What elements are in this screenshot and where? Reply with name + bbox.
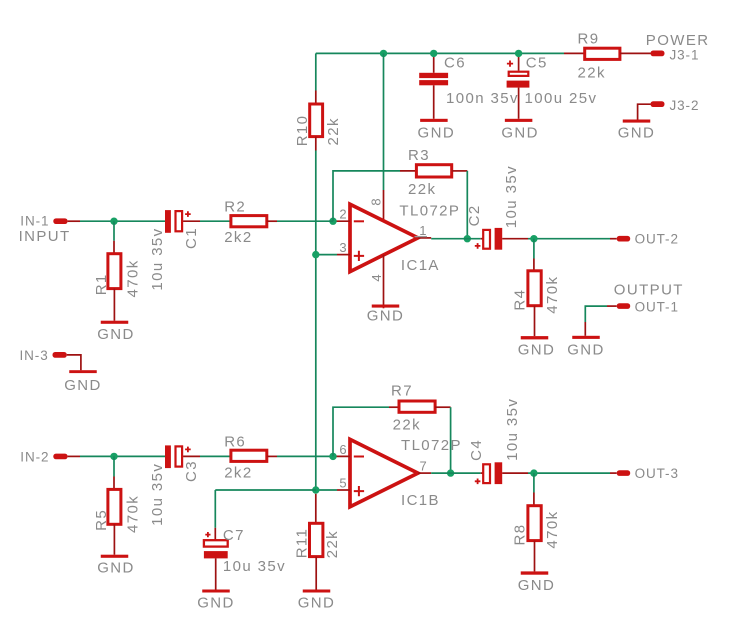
wire OUT-1 ground pin [584,322,586,336]
resistor R3 [416,165,451,177]
svg-text:GND: GND [618,124,656,141]
minus mark IC1A [354,220,364,222]
junction output / R4 [530,235,537,242]
capacitor C2 [483,230,490,249]
svg-text:R6: R6 [224,434,246,451]
svg-text:GND: GND [518,342,556,359]
svg-text:C2: C2 [466,204,483,226]
svg-text:OUTPUT: OUTPUT [614,282,684,299]
junction bias / pin5 / R11 / C7 [312,486,319,493]
junction IN-2 / R5 [110,453,117,460]
svg-text:C7: C7 [223,527,245,544]
wire output to R8 [533,473,535,492]
svg-text:R7: R7 [391,382,413,399]
wire R6 to pin 6 [277,455,333,457]
wire pin IN-2 [68,455,80,457]
svg-text:IC1A: IC1A [401,257,440,274]
wire output to R4 [533,239,535,259]
plus mark C5 [507,61,513,67]
svg-text:IN-3: IN-3 [20,348,49,363]
ground under R8 [521,571,549,574]
pin IN-2 [53,454,67,460]
svg-text:OUT-1: OUT-1 [635,300,679,315]
wire pin R3 right [452,170,468,172]
ground under OUT-1 [572,336,600,339]
wire vertical bias net [315,151,317,491]
svg-text:1: 1 [419,223,427,238]
plus mark IC1A [354,251,364,261]
svg-text:GND: GND [367,307,405,324]
wire pin R1 bottom [113,289,115,321]
wire pin C7 bottom [215,558,217,589]
svg-text:R11: R11 [294,528,311,559]
junction feedback / output [464,235,471,242]
svg-text:IN-2: IN-2 [20,450,49,465]
plus mark IC1B [354,486,364,496]
resistor R11 [310,523,323,556]
wire pin 5 IC1B [337,489,350,491]
wire pin C5 bottom [518,88,520,119]
svg-text:R9: R9 [578,30,600,47]
svg-text:IC1B: IC1B [401,492,440,509]
svg-text:22k: 22k [325,117,342,145]
plus mark C3 [185,447,191,453]
capacitor C3 [165,445,171,468]
pin IN-1 [53,218,67,224]
svg-text:C4: C4 [468,439,485,461]
plus mark C1 [185,211,191,217]
svg-text:4: 4 [369,274,384,282]
ground under C5 [505,119,532,122]
wire pin OUT-1 left [607,305,617,307]
wire feedback IC1A left [333,171,400,221]
wire pin R5 top [113,477,115,490]
wire pin C2 left [481,238,484,240]
wire pin IN-1 [68,220,80,222]
svg-text:R2: R2 [224,199,246,216]
ground under R1 [101,321,129,324]
wire pin C5 top [518,53,520,70]
resistor R9 [585,48,620,59]
wire pin C6 bottom [433,85,435,119]
pin OUT-2 [617,236,631,242]
wire IC1A output [431,238,481,240]
wire bias to pin 5 [316,489,337,491]
resistor R2 [231,216,267,227]
plus mark C2 [475,243,481,249]
wire feedback IC1B right [450,407,452,473]
svg-text:470k: 470k [124,495,141,533]
wire pin 2 IC1A [333,220,350,222]
resistor R4 [528,271,541,306]
svg-text:J3-2: J3-2 [670,98,700,113]
svg-text:22k: 22k [408,181,436,198]
wire pin R1 top [113,241,115,254]
wire pin R8 bottom [534,541,536,572]
wire C7 vertical [214,490,216,528]
svg-text:C5: C5 [526,54,548,71]
svg-text:R10: R10 [294,115,311,147]
capacitor C6 [419,73,448,78]
svg-text:INPUT: INPUT [19,228,71,245]
resistor R6 [231,450,267,461]
svg-text:5: 5 [339,476,347,491]
wire pin 3 IC1A [337,254,350,256]
svg-text:10u 35v: 10u 35v [149,227,166,290]
svg-text:R3: R3 [408,147,430,164]
wire pin C1 right [183,220,200,222]
wire IC1B output [431,472,481,474]
svg-text:C3: C3 [183,460,200,482]
wire C1 to R2 [200,220,231,222]
svg-text:GND: GND [97,560,135,577]
wire pin 4 IC1A to ground [383,255,385,308]
plus mark C7 [205,532,210,537]
svg-text:8: 8 [369,198,384,206]
resistor R1 [108,254,121,289]
capacitor C7 [204,540,228,546]
ground under IC1A [372,305,400,308]
wire pin 1 IC1A output [418,237,431,239]
wire pin R4 bottom [534,306,536,336]
svg-text:J3-1: J3-1 [670,47,700,62]
wire R2 to pin 2 [277,220,333,222]
pin OUT-3 [617,470,631,476]
op-amp IC1A [350,204,418,271]
wire pin R11 bottom [315,557,317,590]
op-amp IC1B [350,439,418,506]
wire pin OUT-3 [610,472,617,474]
svg-text:GND: GND [298,595,336,612]
junction pin6 / feedback [329,453,336,460]
junction output / R8 [530,469,537,476]
svg-text:R5: R5 [93,509,110,531]
ground under R5 [101,555,129,558]
pin OUT-1 [617,303,631,309]
capacitor C5 [509,72,529,76]
wire pin R10 top [315,91,317,105]
wire pin R3 left [400,170,416,172]
ground under IN-3 [69,370,97,373]
junction rail / C5 [515,50,522,57]
svg-text:GND: GND [64,377,102,394]
svg-text:C1: C1 [183,227,200,249]
junction IN-1 / R1 [110,218,117,225]
svg-text:22k: 22k [578,64,606,81]
wire bias to pin 3 [316,254,337,256]
svg-text:2k2: 2k2 [224,464,252,481]
junction feedback / output 2 [447,469,454,476]
svg-text:R1: R1 [93,273,110,295]
svg-text:10u 35v: 10u 35v [149,463,166,526]
wire pin R5 bottom [113,524,115,554]
wire pin R2 right [267,220,277,222]
wire IN-2 to C3 [80,455,165,457]
svg-text:OUT-2: OUT-2 [635,232,679,247]
svg-text:6: 6 [339,442,347,457]
wire J3-2 to ground [638,104,651,119]
wire pin R7 right [435,406,451,408]
ground under J3-2 [623,120,651,123]
wire OUT-1 to ground [585,306,607,322]
wire IN-2 to R5 [113,456,115,476]
svg-text:3: 3 [339,240,347,255]
svg-text:GND: GND [501,124,539,141]
svg-text:GND: GND [197,595,235,612]
resistor R5 [108,489,121,524]
junction rail / op-amp supply [380,50,387,57]
wire pin R11 top [315,494,317,524]
svg-text:TL072P: TL072P [401,437,462,454]
svg-text:IN-1: IN-1 [20,214,49,229]
minus mark IC1B [354,456,364,458]
pin 1 underline [415,236,428,238]
pin IN-3 [53,352,67,358]
svg-text:100u 25v: 100u 25v [525,90,598,107]
wire pin C4 right [502,472,528,474]
svg-text:R4: R4 [511,289,528,311]
wire feedback IC1B left [333,407,389,456]
wire pin R6 right [267,455,277,457]
wire pin R7 left [389,406,399,408]
svg-text:470k: 470k [544,276,561,314]
wire pin C7 top [214,528,216,540]
svg-text:GND: GND [97,326,135,343]
wire rail to IC1A pin 8 [383,53,385,190]
junction bias / pin3 [312,251,319,258]
junction pin2 / feedback [329,218,336,225]
svg-text:GND: GND [418,124,456,141]
pin J3-2 [651,101,665,107]
wire IN-3 to ground [67,355,81,370]
ground under R4 [521,336,549,339]
ground under C7 [202,590,230,593]
wire pin 8 IC1A [383,190,385,221]
wire pin R10 bottom [315,137,317,151]
resistor R7 [399,401,435,412]
wire pin OUT-2 [610,238,617,240]
svg-text:470k: 470k [544,510,561,548]
wire IN-1 to C1 [80,220,165,222]
resistor R8 [528,506,541,541]
wire rail corner to R10 [315,53,317,90]
svg-text:10u 35v: 10u 35v [223,558,286,575]
svg-text:7: 7 [420,458,428,473]
wire C4 to OUT-3 [528,472,610,474]
svg-text:22k: 22k [324,530,341,558]
capacitor C1 [165,210,171,233]
resistor R10 [310,104,323,137]
svg-text:22k: 22k [393,416,421,433]
svg-text:470k: 470k [124,259,141,297]
plus mark C4 [475,479,481,485]
capacitor C4 [483,464,490,483]
wire pin C2 right [502,238,528,240]
wire pin C3 right [183,455,200,457]
wire IN-1 to R1 [113,221,115,241]
wire C3 to R6 [200,455,231,457]
wire pin R4 top [533,259,535,271]
svg-text:10u 35v: 10u 35v [503,165,520,228]
wire pin R9 right to J3-1 [620,52,651,54]
wire pin 7 IC1B output [418,472,431,474]
wire pin R9 left [564,52,586,54]
svg-text:2k2: 2k2 [224,229,252,246]
ground under C6 [420,119,448,122]
svg-text:GND: GND [518,577,556,594]
pin J3-1 [651,51,665,57]
svg-text:R8: R8 [511,524,528,546]
wire pin C6 top [433,53,435,72]
svg-text:10u 35v: 10u 35v [504,398,521,461]
wire power rail V+ [316,52,564,54]
wire pin 6 IC1B [333,455,350,457]
svg-text:TL072P: TL072P [399,203,460,220]
svg-text:C6: C6 [444,54,466,71]
junction rail / C6 [430,50,437,57]
wire pin5 net to C7 horizontal [215,489,315,491]
ground under R11 [303,590,331,593]
svg-text:100n 35v: 100n 35v [446,90,519,107]
svg-text:2: 2 [339,207,347,222]
wire pin R8 top [533,493,535,506]
wire pin C4 left [481,472,484,474]
wire feedback IC1A right [466,171,468,239]
svg-text:OUT-3: OUT-3 [635,466,679,481]
wire C2 to OUT-2 [528,238,610,240]
svg-text:GND: GND [567,342,605,359]
